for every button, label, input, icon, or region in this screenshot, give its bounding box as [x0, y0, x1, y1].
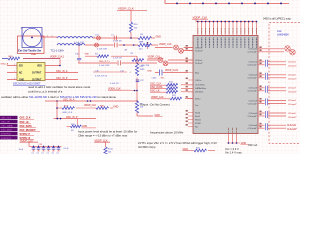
IC right pin numbers — [259, 46, 261, 127]
svg-text:CLKout4*: CLKout4* — [288, 103, 297, 106]
wire to CLKin0 — [155, 48, 193, 51]
svg-text:CLKin1: CLKin1 — [195, 60, 203, 62]
svg-text:3: 3 — [14, 78, 15, 80]
svg-text:GND_A: GND_A — [1, 62, 9, 65]
power rail VDDP_CLK top — [165, 0, 289, 4]
svg-text:CLKout5: CLKout5 — [248, 112, 257, 115]
svg-text:Vin 1.4 V max: Vin 1.4 V max — [225, 151, 242, 154]
rail junction dots — [176, 3, 282, 5]
wire OSCin row (series cap C36) — [147, 70, 188, 76]
capacitor C1 series bars — [114, 36, 116, 41]
IC left pin numbers — [186, 45, 188, 126]
DNI terminator pair (CLKin0) — [174, 45, 184, 53]
svg-text:CLKout0: CLKout0 — [248, 48, 257, 51]
svg-text:0.1: 0.1 — [32, 152, 35, 154]
svg-text:0.1uF, DN2: 0.1uF, DN2 — [99, 65, 110, 67]
svg-text:CLKout2: CLKout2 — [288, 74, 297, 77]
svg-text:CLKout3*: CLKout3* — [288, 91, 297, 94]
transformer T1 winding bottom — [57, 44, 85, 46]
connector J2 (SMA) — [22, 28, 42, 48]
resistor R17 + R30 row — [56, 105, 118, 114]
resistor R57 (vertical) — [135, 101, 162, 117]
net label VDDP_CLK (R1 branch) — [117, 6, 147, 22]
svg-text:0.1uF, 1R: 0.1uF, 1R — [110, 83, 119, 85]
net label VDDN_CLK — [108, 87, 138, 91]
svg-text:4: 4 — [47, 35, 48, 37]
decoupling caps bank VDDP_CLK — [19, 139, 70, 151]
svg-text:CLKuWire: CLKuWire — [195, 84, 206, 87]
svg-text:CLKin0: CLKin0 — [195, 47, 203, 49]
sheet ports (purple) — [0, 116, 40, 140]
svg-text:DATAuWire: DATAuWire — [195, 87, 207, 90]
svg-text:Voil 800 mVpp: Voil 800 mVpp — [138, 145, 156, 149]
svg-text:0.1uF, 1R: 0.1uF, 1R — [113, 58, 122, 60]
right row pair 1 — [263, 60, 297, 68]
svg-text:10uF: 10uF — [19, 149, 24, 151]
wire row y38 — [93, 37, 138, 39]
capacitor C37 — [110, 80, 145, 85]
wire vertical x137 — [136, 78, 138, 102]
svg-text:CLKout4*: CLKout4* — [248, 102, 258, 105]
svg-text:CLKin0*: CLKin0* — [195, 50, 203, 52]
svg-text:4: 4 — [130, 72, 131, 74]
SDIO row — [151, 95, 193, 100]
svg-text:CLKout4: CLKout4 — [248, 99, 257, 102]
svg-text:Ext-Std Tactile Sw: Ext-Std Tactile Sw — [18, 49, 42, 53]
svg-text:CLKout6: CLKout6 — [287, 124, 297, 127]
svg-text:SYNTH_N: SYNTH_N — [1, 138, 12, 140]
svg-text:SDIO: SDIO — [195, 99, 201, 101]
right row pair 3 — [263, 86, 297, 94]
svg-text:LVTTL input VIH: 2 V => 2.5 V: LVTTL input VIH: 2 V => 2.5 V from FPGA … — [138, 141, 217, 145]
svg-text:CLKout6*: CLKout6* — [287, 128, 297, 131]
link text DSC1001 — [13, 83, 46, 86]
svg-text:CLKout5: CLKout5 — [288, 112, 297, 115]
right row pair 6 — [263, 123, 297, 131]
capacitor C12 series bars — [118, 61, 120, 66]
svg-text:0.1: 0.1 — [42, 152, 45, 154]
svg-text:0.1: 0.1 — [37, 152, 40, 154]
svg-text:NC: NC — [19, 73, 23, 75]
capacitor C16 — [75, 44, 90, 62]
IC top pin numbers (vertical) — [198, 28, 257, 34]
svg-text:GND: GND — [113, 106, 119, 109]
svg-text:OSC_CLK: OSC_CLK — [1, 118, 12, 120]
svg-text:OSC_IN_A: OSC_IN_A — [56, 70, 68, 73]
resistor R56 (vertical) — [135, 64, 145, 76]
IC bottom pin numbers (vertical) — [229, 128, 237, 133]
IC left pin names — [195, 47, 207, 128]
wire OSC_IN_A run — [45, 99, 137, 132]
svg-text:could be p_a_b instead of a: could be p_a_b instead of a — [28, 89, 63, 93]
uWire rows — [150, 82, 193, 87]
net label VDDP_CLK (above R57) — [0, 0, 1, 1]
IC top pin comb — [192, 15, 257, 21]
DNI terminator pair (CLKin1) — [158, 58, 168, 66]
net label VDDP_CLK (CLKin1) — [148, 56, 164, 59]
DNI capacitor C22 (crossed) — [95, 43, 99, 47]
wire VDD riser — [23, 59, 60, 66]
svg-text:NC: NC — [195, 126, 199, 128]
svg-text:oscillator will be either 511-: oscillator will be either 511-11065-ND 1… — [1, 95, 116, 99]
svg-text:VDD: VDD — [37, 66, 42, 68]
svg-text:SYNTH_P: SYNTH_P — [1, 134, 12, 136]
svg-text:CLKout6*: CLKout6* — [248, 127, 258, 130]
svg-text:CLKout6: CLKout6 — [248, 124, 257, 127]
svg-text:CLKout3: CLKout3 — [288, 87, 297, 90]
svg-text:CLKout2: CLKout2 — [248, 74, 257, 77]
IC right pin stubs — [258, 49, 263, 128]
svg-text:CLKout4: CLKout4 — [288, 99, 297, 102]
svg-text:OSC_DATA: OSC_DATA — [1, 125, 13, 128]
right row pair 0: wires + DNI connector — [263, 46, 296, 55]
resistor R108 — [94, 139, 113, 154]
resistor R31 bottom center — [183, 147, 216, 152]
svg-text:LEuWire: LEuWire — [195, 91, 204, 94]
right row pair 4 — [263, 98, 297, 106]
resistor R7 — [138, 41, 152, 50]
svg-text:CLKout1: CLKout1 — [288, 61, 297, 64]
svg-text:0.1: 0.1 — [57, 152, 60, 154]
wire row y45 — [85, 44, 138, 46]
svg-text:7NC: 7NC — [161, 78, 166, 80]
svg-text:0.1uF, 1R C3: 0.1uF, 1R C3 — [95, 75, 108, 77]
svg-text:2: 2 — [51, 35, 52, 37]
svg-text:GND: GND — [19, 79, 24, 81]
svg-text:Output - Do Not Connect: Output - Do Not Connect — [140, 102, 170, 106]
svg-text:Stat0: Stat0 — [195, 111, 201, 114]
junction dot row y38 — [130, 37, 132, 39]
svg-text:OSC_IN_P: OSC_IN_P — [56, 78, 68, 80]
svg-text:0.1: 0.1 — [47, 152, 50, 154]
svg-text:CLKout3*: CLKout3* — [248, 90, 258, 93]
red callout box around connector — [18, 36, 45, 54]
wire row y72 (DNI caps) — [93, 71, 127, 73]
dashed DNI region outline — [269, 22, 300, 143]
svg-text:OSC_IN_A: OSC_IN_A — [63, 99, 75, 102]
svg-text:0.1uF, DNI: 0.1uF, DNI — [74, 42, 84, 44]
resistor R1 — [129, 22, 138, 38]
svg-text:CLKout2*: CLKout2* — [288, 78, 297, 81]
svg-text:GND_2L2 1: GND_2L2 1 — [99, 61, 110, 63]
svg-text:0402 is all LVPECL outp: 0402 is all LVPECL outp — [263, 16, 291, 20]
svg-text:VDDP_CLK: VDDP_CLK — [159, 43, 172, 46]
DNI capacitor C21 (crossed) — [97, 36, 101, 40]
svg-text:E/D: E/D — [19, 66, 23, 68]
svg-text:0.1uF, 4R: 0.1uF, 4R — [113, 41, 122, 43]
wire row CLKin1 — [78, 60, 193, 63]
IC bottom pins — [227, 134, 249, 146]
svg-text:CLKin1*: CLKin1* — [195, 63, 203, 65]
svg-text:OSC_IN_P: OSC_IN_P — [66, 117, 78, 119]
svg-text:CLKout0*: CLKout0* — [248, 51, 258, 54]
svg-text:0.1uF, DNI: 0.1uF, DNI — [97, 49, 107, 51]
svg-text:OUTPUT: OUTPUT — [32, 73, 42, 75]
IC left pin stubs — [188, 48, 193, 127]
right row pair 2 — [263, 73, 297, 81]
svg-text:TC1-1-13M+: TC1-1-13M+ — [51, 50, 65, 53]
capacitor C11 series bars — [115, 43, 117, 48]
svg-text:OUTPUT: OUTPUT — [32, 79, 42, 81]
svg-text:OSC_LE: OSC_LE — [1, 122, 10, 124]
svg-text:GND: GND — [156, 36, 162, 39]
IC right pin names — [248, 48, 258, 130]
svg-text:CLKout1*: CLKout1* — [288, 65, 297, 68]
svg-text:1: 1 — [14, 64, 15, 66]
svg-text:Stat1: Stat1 — [195, 115, 201, 118]
svg-text:HOLD: HOLD — [195, 119, 201, 121]
svg-text:CLKout5*: CLKout5* — [288, 116, 297, 119]
svg-text:GND: GND — [85, 54, 90, 56]
svg-text:OSCin: OSCin — [195, 80, 202, 82]
svg-text:VDDP_CLK: VDDP_CLK — [118, 6, 134, 10]
IC top pin names (vertical, inside) — [198, 38, 257, 48]
svg-text:CLKout5*: CLKout5* — [248, 115, 258, 118]
svg-text:VDDP_CLK1: VDDP_CLK1 — [165, 70, 179, 72]
svg-text:Clkin range = <-13 dBm to +7 d: Clkin range = <-13 dBm to +7 dBm max — [78, 134, 128, 138]
wire connector to transformer — [41, 36, 57, 38]
svg-text:CLKout1: CLKout1 — [248, 61, 257, 64]
IC U1 LMK04808 body — [193, 36, 258, 134]
svg-text:330 mA: 330 mA — [248, 143, 257, 147]
svg-text:GND_CLK: GND_CLK — [62, 112, 73, 114]
svg-text:CLKout3: CLKout3 — [248, 87, 257, 90]
svg-text:OSC_MUX: OSC_MUX — [1, 130, 12, 132]
svg-text:0.1: 0.1 — [52, 152, 55, 154]
svg-text:frequencies above 10 MHz: frequencies above 10 MHz — [150, 131, 184, 135]
svg-text:Vcc = 3.3 V: Vcc = 3.3 V — [225, 147, 239, 151]
svg-text:CLKout2*: CLKout2* — [248, 77, 258, 80]
resistor R6 — [138, 34, 152, 43]
svg-text:SMA: SMA — [31, 53, 36, 56]
resistor R19 — [2, 56, 60, 60]
svg-text:SYNC: SYNC — [195, 123, 201, 125]
resistor R4 — [85, 53, 137, 63]
svg-text:CLKout1*: CLKout1* — [248, 64, 258, 67]
svg-text:2: 2 — [14, 71, 15, 73]
svg-text:VDDP_CLK1: VDDP_CLK1 — [50, 56, 65, 59]
svg-text:GND: GND — [147, 70, 152, 72]
svg-text:VDDP_CLK: VDDP_CLK — [84, 105, 97, 107]
transformer T1 winding top — [57, 37, 93, 39]
capacitor C15 (x147 vertical) — [146, 42, 150, 49]
svg-text:LMK04808: LMK04808 — [277, 33, 289, 36]
svg-text:0.1uF: 0.1uF — [64, 148, 70, 150]
right row pair 5 — [263, 111, 297, 119]
svg-text:VDDP_CLK: VDDP_CLK — [193, 15, 208, 19]
oscillator X2 (yellow) — [7, 63, 78, 82]
resistor R18 — [67, 119, 97, 132]
